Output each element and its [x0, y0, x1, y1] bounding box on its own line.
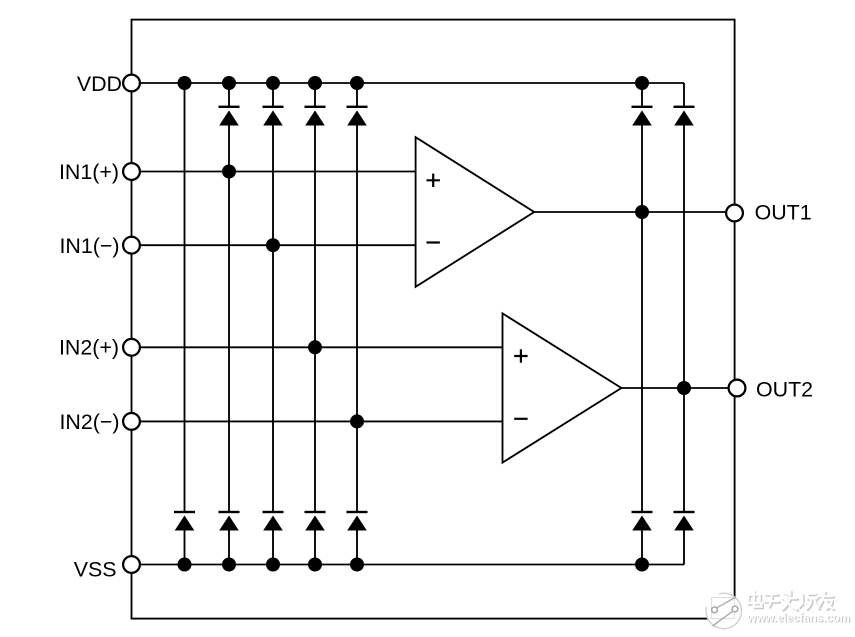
- junction dot VSS-col3: [266, 558, 280, 572]
- pin IN1(-): [123, 237, 140, 254]
- wire OUT2 horizontal: [621, 387, 737, 389]
- junction dot VSS-col1: [178, 558, 192, 572]
- junction dot VDD-col2: [222, 76, 236, 90]
- wire IN1(+) horizontal: [132, 171, 416, 173]
- junction dot IN2+ col4: [308, 340, 322, 354]
- junction dot OUT1 col6: [635, 205, 649, 219]
- junction dot IN1+ col2: [222, 165, 236, 179]
- diode D10 bottom column4: [305, 511, 326, 531]
- watermark text www.elecfans.com: [746, 612, 851, 625]
- svg-text:VSS: VSS: [74, 558, 117, 582]
- IC boundary box: [132, 20, 735, 619]
- wire VSS rail horizontal: [132, 564, 685, 566]
- junction dot IN2- col5: [350, 414, 364, 428]
- svg-text:IN2(−): IN2(−): [59, 410, 119, 434]
- diode D1 top column2: [219, 106, 240, 126]
- junction dot VDD-col5: [350, 76, 364, 90]
- junction dot VDD-col1: [178, 76, 192, 90]
- svg-text:IN2(+): IN2(+): [59, 336, 119, 360]
- watermark text dianzifashaoyou: [750, 592, 835, 611]
- svg-text:OUT1: OUT1: [755, 200, 812, 224]
- op-amp U2: [503, 313, 622, 462]
- diode D7 bottom column1: [174, 511, 195, 531]
- diode D4 top column5: [347, 106, 368, 126]
- wire IN2(+) horizontal: [132, 346, 503, 348]
- wire IN1(-) horizontal: [132, 244, 416, 246]
- junction dot IN1- col3: [266, 238, 280, 252]
- wire column4 vertical: [314, 83, 316, 565]
- diode D9 bottom column3: [263, 511, 284, 531]
- pin VSS: [123, 556, 140, 573]
- wire OUT1 horizontal: [534, 211, 734, 213]
- pin IN2(+): [123, 339, 140, 356]
- diode D5 top column6: [632, 106, 653, 126]
- diode D8 bottom column2: [219, 511, 240, 531]
- svg-text:OUT2: OUT2: [756, 378, 813, 402]
- op-amp U1: [416, 137, 535, 287]
- pin OUT2: [729, 380, 746, 397]
- junction dot OUT2 col7: [677, 381, 691, 395]
- diode D12 bottom column6: [632, 511, 653, 531]
- diode D2 top column3: [263, 106, 284, 126]
- junction dot VSS-col4: [308, 558, 322, 572]
- pin IN2(-): [123, 413, 140, 430]
- junction dot VSS-col5: [350, 558, 364, 572]
- junction dot VDD-col4: [308, 76, 322, 90]
- diode D13 bottom column7: [674, 511, 695, 531]
- junction dot VDD-col3: [266, 76, 280, 90]
- svg-text:IN1(+): IN1(+): [59, 160, 119, 184]
- wire IN2(-) horizontal: [132, 420, 503, 422]
- wire column6 vertical: [641, 83, 643, 565]
- wire VDD rail horizontal: [132, 82, 685, 84]
- junction dot VSS-col6: [635, 558, 649, 572]
- pin VDD: [123, 75, 140, 92]
- junction dot VDD-col6: [635, 76, 649, 90]
- diode D6 top column7: [674, 106, 695, 126]
- diode D11 bottom column5: [347, 511, 368, 531]
- wire column1 vertical: [184, 83, 186, 565]
- diode D3 top column4: [305, 106, 326, 126]
- junction dot VSS-col2: [222, 558, 236, 572]
- watermark logo elecfans: [706, 593, 741, 628]
- wire column3 vertical: [272, 83, 274, 565]
- pin IN1(+): [123, 163, 140, 180]
- wire column5 vertical: [356, 83, 358, 565]
- svg-text:IN1(−): IN1(−): [59, 234, 119, 258]
- svg-text:VDD: VDD: [77, 72, 122, 96]
- wire column7 vertical: [683, 83, 685, 565]
- wire column2 vertical: [228, 83, 230, 565]
- svg-text:www.elecfans.com: www.elecfans.com: [746, 612, 849, 624]
- pin OUT1: [726, 205, 743, 222]
